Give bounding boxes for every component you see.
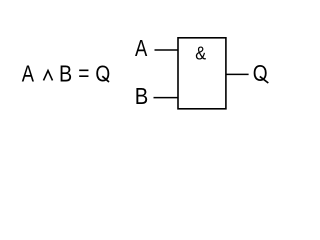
wire output Q (226, 73, 249, 75)
Q tail (102, 76, 109, 82)
wedge operator (logical AND) (44, 71, 53, 81)
svg-text:A: A (135, 36, 147, 61)
svg-text:B: B (135, 83, 149, 110)
wire input B (154, 97, 179, 99)
svg-text:A: A (22, 62, 34, 87)
AND gate U1 body (178, 38, 226, 109)
output label Q tail (260, 76, 269, 83)
svg-text:B: B (59, 61, 72, 87)
svg-text:O: O (253, 61, 268, 86)
svg-text:=: = (78, 62, 89, 87)
equation: A AND B = Q (22, 61, 110, 87)
svg-text:O: O (95, 62, 110, 87)
wire input A (155, 49, 179, 51)
svg-text:&: & (195, 43, 206, 64)
